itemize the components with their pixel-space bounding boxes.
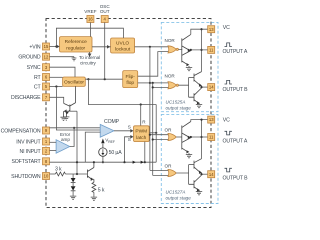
svg-text:NI INPUT: NI INPUT: [20, 149, 42, 155]
wire CT to oscillator: [50, 86, 63, 88]
svg-text:12: 12: [44, 54, 49, 59]
comparator COMP: [100, 119, 119, 137]
wire RT to oscillator: [50, 76, 63, 78]
wire clock line to PWM latch R and bus: [88, 79, 156, 104]
svg-text:SOFTSTART: SOFTSTART: [11, 159, 41, 165]
node UVLO bus junction: [149, 46, 151, 48]
wire bus A tap to OR A: [150, 134, 170, 136]
wire VREF pin to reference regulator: [89, 23, 91, 37]
pin 11 OUTPUT A upper: [208, 46, 215, 53]
wire OR B output to totem bases: [176, 165, 188, 185]
ground totem B upper: [196, 105, 202, 108]
resistor 5k: [92, 182, 105, 197]
svg-text:lockout: lockout: [115, 47, 131, 53]
UVLO lockout block: [111, 38, 135, 53]
diode D2: [71, 183, 76, 196]
svg-text:13: 13: [209, 27, 214, 32]
svg-text:DISCHARGE: DISCHARGE: [11, 95, 41, 101]
wire SYNC to oscillator top: [50, 67, 76, 77]
wire flip-flop Q to NOR A second input: [138, 52, 170, 77]
svg-text:SHUTDOWN: SHUTDOWN: [11, 174, 41, 180]
pin 5 CT: [34, 83, 50, 90]
svg-text:UVLO: UVLO: [116, 40, 129, 46]
wire DISCHARGE to transistor base: [50, 97, 64, 103]
wire VC rail lower stage: [191, 119, 208, 159]
pin 4 OSC OUT: [100, 4, 111, 23]
VREF arrow above current source: [101, 138, 115, 148]
wire internal arm riser to shutdown line: [76, 111, 78, 174]
wire bus B tap to OR B second input: [153, 174, 170, 176]
svg-text:OUTPUT B: OUTPUT B: [223, 87, 249, 93]
ground totem A lower: [186, 155, 192, 158]
current source 50 uA: [99, 148, 123, 156]
wire CT ramp to comparator: [56, 87, 100, 131]
svg-text:OR: OR: [165, 163, 173, 168]
svg-text:13: 13: [209, 117, 214, 122]
waveform pulse high B: [225, 80, 232, 84]
svg-text:Flip-: Flip-: [126, 74, 136, 80]
svg-text:circuitry: circuitry: [80, 60, 97, 65]
wire reference regulator to UVLO with arrow: [92, 45, 111, 49]
resistor 3k with SHUTDOWN wire: [50, 172, 88, 176]
ground symbol at GROUND pin wire: [50, 57, 77, 61]
node +VIN branch junction: [55, 45, 57, 47]
svg-text:14: 14: [209, 85, 214, 90]
wire bus B tap to OR A second input: [153, 139, 170, 141]
svg-text:REF: REF: [108, 140, 115, 144]
pin 11 OUTPUT A lower: [208, 134, 215, 141]
wire flip-flop Qbar to bus line B: [138, 82, 153, 84]
svg-text:Reference: Reference: [65, 39, 87, 45]
arrowheads on softstart node line: [133, 161, 144, 164]
svg-text:output stage: output stage: [166, 196, 192, 201]
wire to internal circuitry arrow from reference regulator: [88, 52, 92, 57]
pin 10 SHUTDOWN: [11, 173, 49, 180]
wire bus A tap to NOR B: [150, 82, 170, 84]
svg-text:OUT: OUT: [100, 9, 110, 14]
wire oscillator output to flip-flop: [85, 78, 122, 80]
pin 13 VC upper: [208, 26, 215, 33]
node CT ramp junction: [55, 85, 57, 87]
svg-text:To internal: To internal: [79, 55, 100, 60]
svg-text:NOR: NOR: [165, 74, 176, 79]
node current source junction: [102, 161, 104, 163]
UC1527A output stage dashed box: [161, 114, 218, 203]
svg-text:CT: CT: [34, 84, 42, 90]
ground totem B lower: [196, 192, 202, 195]
svg-text:amp: amp: [61, 137, 70, 142]
transistor Q discharge: [64, 86, 76, 116]
pin 14 OUTPUT B upper: [208, 84, 215, 91]
wire OUTPUT B line lower: [200, 173, 207, 175]
svg-text:5 k: 5 k: [98, 188, 105, 194]
svg-text:VREF: VREF: [84, 9, 96, 14]
svg-text:latch: latch: [136, 135, 146, 141]
NOR gate B: [168, 82, 178, 89]
transistor pair totem pole B (lower stage): [189, 159, 202, 192]
IC boundary dashed box: [46, 19, 211, 208]
svg-text:regulator: regulator: [66, 45, 85, 51]
wire +VIN riser to UVLO feed: [56, 28, 123, 46]
wire OSC OUT pin riser: [104, 23, 106, 80]
transistor pair totem pole B (upper stage): [189, 72, 202, 105]
svg-text:S: S: [128, 125, 131, 130]
wire bus A tap to OR B: [150, 170, 170, 172]
svg-text:11: 11: [209, 48, 214, 53]
internal ground reference arm: [64, 109, 78, 117]
svg-text:VC: VC: [223, 117, 230, 123]
pin 13 VC lower: [208, 116, 215, 123]
wire second S input from softstart node: [125, 135, 134, 162]
OR gate B: [168, 169, 176, 176]
wire bus line B: [152, 83, 154, 175]
svg-text:16: 16: [88, 17, 93, 22]
node arm on softstart line: [76, 161, 78, 163]
svg-text:INV INPUT: INV INPUT: [16, 139, 41, 145]
wire error amp output riser: [70, 128, 74, 147]
wire INV INPUT to error amp: [50, 141, 57, 143]
node S2 riser junction: [123, 161, 125, 163]
svg-text:SYNC: SYNC: [27, 65, 41, 71]
svg-text:OR: OR: [165, 128, 173, 133]
svg-text:OUTPUT B: OUTPUT B: [223, 176, 249, 182]
wire +VIN to reference regulator with arrow: [50, 45, 60, 49]
wire latch bus riser: [155, 105, 157, 163]
OR gate A: [168, 133, 176, 140]
svg-text:15: 15: [44, 44, 49, 49]
reference regulator U-ref: [60, 37, 93, 52]
pin 7 DISCHARGE: [11, 94, 50, 101]
wire OUTPUT A line: [190, 49, 208, 51]
wire UVLO output to NOR A input: [135, 46, 170, 48]
PWM latch block: [134, 126, 150, 142]
waveform pulse low B: [225, 168, 232, 172]
svg-text:10: 10: [44, 174, 49, 179]
diode D1: [71, 174, 76, 183]
wire comparator output to PWM latch S: [114, 129, 134, 133]
svg-text:COMPENSATION: COMPENSATION: [1, 128, 41, 134]
svg-text:NOR: NOR: [165, 38, 176, 43]
pin 14 OUTPUT B lower: [208, 171, 215, 178]
wire R input into PWM latch: [140, 105, 142, 126]
wire latch lower output drop: [144, 142, 146, 163]
node ramp tap: [87, 78, 89, 80]
svg-text:Oscillator: Oscillator: [64, 80, 84, 86]
svg-text:output stage: output stage: [166, 106, 192, 111]
waveform pulse low A: [225, 131, 232, 135]
wire OR A output to totem bases: [176, 136, 182, 138]
wire softstart node line: [50, 161, 157, 163]
wire VC rail upper stage: [191, 28, 208, 72]
svg-text:50 µA: 50 µA: [109, 150, 123, 156]
wire PWM latch output: [149, 132, 156, 134]
pin 3 SYNC: [27, 64, 50, 71]
svg-text:+VIN: +VIN: [29, 44, 40, 50]
ground below 5k: [91, 197, 97, 200]
ground below diodes: [70, 196, 76, 199]
wire NI INPUT to error amp: [50, 150, 57, 152]
pin 12 GROUND: [18, 53, 49, 60]
transistor pair totem pole A (upper stage): [182, 34, 191, 67]
wire COMPENSATION to comparator: [50, 127, 101, 129]
oscillator block: [63, 77, 86, 86]
pin 9 COMPENSATION: [1, 127, 50, 134]
svg-text:OUTPUT A: OUTPUT A: [223, 139, 248, 145]
svg-text:UC1527A: UC1527A: [166, 190, 186, 195]
waveform pulse high A: [225, 43, 232, 47]
transistor Q shutdown: [87, 162, 94, 182]
pin 15 +VIN: [29, 43, 49, 50]
wire bus line A: [149, 47, 151, 171]
svg-text:11: 11: [209, 135, 214, 140]
svg-text:RT: RT: [34, 75, 42, 81]
svg-text:COMP: COMP: [104, 119, 120, 125]
wire softstart node to comparator input: [85, 132, 100, 162]
svg-text:UC1525A: UC1525A: [166, 100, 186, 105]
UC1525A output stage dashed box: [161, 22, 218, 111]
svg-text:OUTPUT A: OUTPUT A: [223, 49, 248, 55]
node clock to latch R junction: [140, 103, 142, 105]
ground below discharge transistor: [63, 117, 69, 120]
pin 16 VREF: [84, 9, 96, 23]
svg-text:14: 14: [209, 172, 214, 177]
svg-text:3 k: 3 k: [55, 167, 62, 173]
pin 1 INV INPUT: [16, 138, 49, 145]
wire NOR A output to totem A bases: [178, 48, 181, 51]
pin 2 NI INPUT: [20, 147, 50, 154]
svg-text:VC: VC: [223, 25, 230, 31]
svg-text:GROUND: GROUND: [18, 55, 41, 61]
ground symbol internal: [60, 117, 66, 120]
node OSC OUT tap: [104, 78, 106, 80]
wire bus B tap to NOR B second input: [153, 86, 170, 88]
svg-text:flop: flop: [126, 80, 134, 86]
pin 6 RT: [34, 74, 50, 81]
wire OUTPUT A line lower: [190, 136, 208, 138]
pin 8 SOFTSTART: [11, 158, 49, 165]
flip-flop block: [123, 71, 138, 88]
node arm on shutdown line: [76, 173, 78, 175]
ground totem A upper: [186, 68, 192, 71]
wire current source to softstart node: [102, 156, 104, 162]
transistor pair totem pole A (lower stage): [182, 122, 191, 155]
NOR gate A: [168, 46, 178, 53]
wire NOR B output to totem B bases: [178, 78, 188, 98]
error amp E/A: [56, 132, 71, 153]
node error amp output on compensation line: [73, 127, 75, 129]
node shutdown transistor collector: [93, 161, 95, 163]
svg-text:PWM: PWM: [135, 129, 147, 135]
wire OUTPUT B line: [200, 86, 207, 88]
